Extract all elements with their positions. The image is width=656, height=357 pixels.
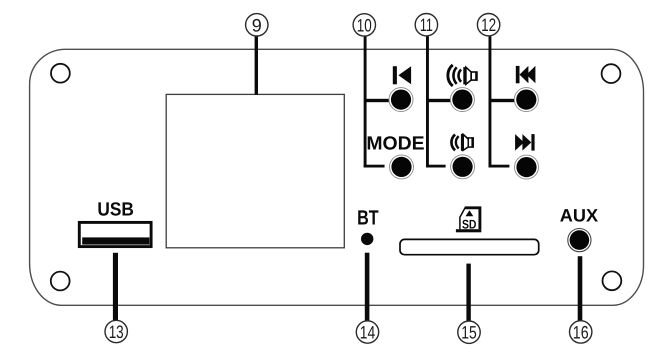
icon volume-up: speaker mouth bar [463,67,466,84]
icon volume-down: speaker cone [463,134,468,150]
svg-text:10: 10 [357,15,372,35]
button next-track disc [516,157,536,177]
screw hole bottom-left [51,272,70,291]
SD icon bottom bar [456,229,481,232]
screw hole bottom-right [603,271,622,290]
stub 12 to bottom button [489,165,510,168]
icon volume-up: speaker box [471,72,477,80]
leader line 11 [426,36,429,167]
svg-text:14: 14 [360,323,376,343]
AUX jack ring [568,229,591,252]
icon next-track bar [531,134,534,151]
SD icon card top and right edges [465,208,480,229]
button play/pause disc [391,90,411,110]
svg-text:SD: SD [462,217,477,231]
icon next-track triangle 2 [522,134,531,151]
button previous-track (col3 row1) ring [514,88,538,112]
USB port outline [79,222,151,246]
icon volume-down: speaker box [468,138,473,147]
callout circle 14 [356,321,378,343]
stub 11 to bottom button [426,165,446,168]
SD icon arrow triangle [466,210,474,216]
button volume-down disc [453,157,473,177]
leader line 16 [578,256,583,321]
callout circle 12 [477,14,499,36]
leader line 14 [365,253,370,321]
leader line 9 [255,36,258,95]
svg-text:9: 9 [252,15,262,35]
icon volume-down: wave arc 2 [456,136,459,148]
icon play/pause bar [393,66,397,84]
AUX jack disc [570,230,590,250]
screw hole top-right [602,64,621,83]
icon volume-up: wave arc 3 [459,70,462,82]
leader line 15 [466,264,470,322]
svg-text:USB: USB [97,200,134,221]
button next-track (col3 row2) ring [515,155,539,179]
icon volume-up: wave arc 1 [448,65,453,86]
button volume-down (col2 row2) ring [451,155,475,179]
SD icon card left chamfer edge [460,207,466,229]
button MODE (col1 row2) ring [390,155,414,179]
svg-text:BT: BT [357,206,379,229]
icon previous-track triangle 1 [520,66,529,83]
leader line 12 [489,36,492,167]
panel outline [30,49,644,305]
icon volume-down: speaker box right bar [471,137,473,147]
stub 10 to bottom button [364,165,385,168]
svg-text:15: 15 [461,323,477,343]
stub 11 to top button [427,99,452,102]
callout circle 13 [105,320,127,342]
leader line 10 [364,36,367,167]
icon volume-up: wave arc 2 [453,67,456,84]
callout circle 9 [246,14,268,36]
svg-text:16: 16 [573,322,589,342]
BT indicator dot [361,233,373,245]
screw hole top-left [51,64,70,83]
leader line 13 [113,253,118,320]
icon previous-track triangle 2 [527,66,536,83]
SD card slot [400,239,539,254]
button play/pause (col1 row1) ring [389,88,413,112]
icon play/pause triangle [398,66,411,84]
USB port tongue bar [82,237,149,244]
svg-text:MODE: MODE [366,133,424,154]
button MODE disc [391,157,411,177]
icon volume-up: speaker box right bar [475,72,477,81]
callout circle 15 [458,321,480,343]
icon next-track triangle 1 [515,134,524,151]
button volume-up (col2 row1) ring [450,88,474,112]
svg-text:12: 12 [481,15,496,35]
stub 10 to top button [365,99,390,102]
svg-text:AUX: AUX [560,205,598,225]
callout circle 11 [415,14,437,36]
button previous-track disc [516,90,536,110]
icon volume-up: speaker cone [466,67,471,84]
icon previous-track bar [516,66,520,83]
svg-text:13: 13 [109,322,124,342]
icon volume-down: speaker mouth bar [461,134,463,151]
button volume-up disc [452,90,472,110]
stub 12 to top button [489,99,514,102]
display screen (item 9) [166,94,344,247]
callout circle 16 [570,321,592,343]
callout circle 10 [353,14,375,36]
icon volume-down: wave arc 1 [451,135,455,151]
svg-text:11: 11 [420,15,433,35]
